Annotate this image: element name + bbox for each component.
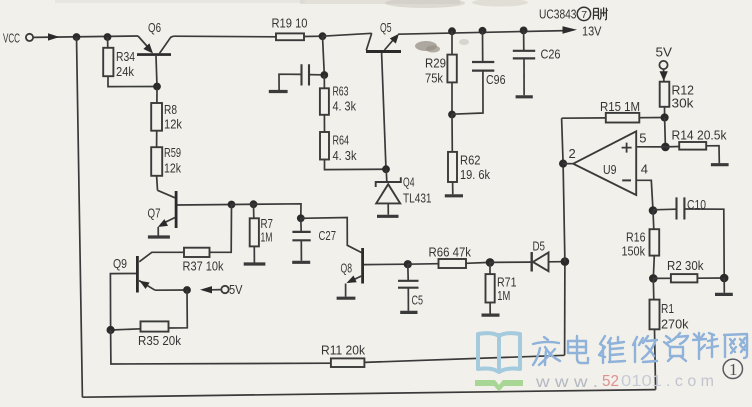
wire inverting input riser — [562, 118, 565, 261]
label R66 47k — [429, 244, 472, 259]
wire R2 node down — [723, 278, 725, 293]
node VCC junction left — [73, 33, 81, 41]
label R16 150k — [622, 229, 646, 258]
arrow 5V down — [660, 71, 668, 81]
svg-text:R8: R8 — [164, 102, 177, 117]
ground R62 — [445, 194, 463, 197]
node VCC junction R34 — [104, 33, 112, 41]
label UC3843 pin7 — [539, 7, 591, 22]
transistor Q6 — [137, 36, 174, 87]
svg-text:R1: R1 — [661, 301, 674, 316]
svg-text:w w w .: w w w . — [535, 374, 598, 391]
svg-text:C26: C26 — [541, 46, 561, 61]
label Q5 — [380, 20, 392, 35]
VCC terminal — [26, 34, 33, 41]
resistor R16 — [650, 211, 660, 279]
label R35 20k — [138, 333, 181, 348]
label D5 — [533, 239, 546, 254]
label 5V mid — [229, 282, 243, 297]
node R35 left — [107, 326, 115, 334]
resistor R63 — [320, 75, 329, 132]
wire R37 right riser — [210, 205, 232, 253]
resistor R37 — [139, 248, 209, 262]
label Q7 — [148, 205, 161, 220]
resistor R12 — [660, 79, 670, 118]
node D5 feedback — [561, 257, 570, 266]
node R37 top — [228, 201, 236, 209]
svg-text:Q5: Q5 — [380, 20, 392, 35]
diode D5 — [490, 252, 561, 272]
resistor R11 — [331, 355, 565, 367]
wire pin 4 — [636, 180, 653, 210]
svg-text:12k: 12k — [164, 160, 181, 175]
label VCC — [3, 31, 20, 46]
resistor R14 — [665, 142, 719, 163]
svg-text:19. 6k: 19. 6k — [460, 167, 490, 182]
svg-text:R19 10: R19 10 — [272, 16, 308, 31]
label C26 — [541, 46, 561, 61]
label jiao glyph — [593, 7, 607, 19]
diode Q4 TL431 — [376, 169, 401, 215]
node Q5 collector TL431 — [382, 165, 390, 173]
svg-text:. c o m: . c o m — [666, 373, 714, 390]
label R19 10 — [272, 16, 308, 31]
label R34 24k — [116, 49, 135, 79]
svg-text:4. 3k: 4. 3k — [333, 148, 357, 163]
svg-text:4: 4 — [641, 161, 648, 176]
ground Q8 — [337, 297, 356, 300]
svg-text:C27: C27 — [319, 228, 337, 243]
node R71 top — [486, 258, 495, 267]
svg-text:12k: 12k — [164, 116, 182, 131]
label R29 75k — [425, 55, 446, 85]
label R37 10k — [183, 259, 224, 274]
ground R7 — [244, 262, 266, 265]
label R7 1M — [261, 216, 274, 245]
label R1 270k — [661, 301, 689, 332]
svg-text:R15 1M: R15 1M — [600, 99, 640, 114]
svg-text:52: 52 — [602, 373, 619, 390]
capacitor at R19 node — [279, 64, 321, 90]
resistor R34 — [103, 37, 157, 87]
capacitor C27 — [292, 218, 310, 260]
transistor Q5 — [323, 33, 402, 169]
label R71 1M — [497, 274, 517, 303]
svg-text:75k: 75k — [425, 70, 443, 85]
node R2 right C10 — [720, 274, 729, 283]
wire Q9 emitter to 5V node — [155, 289, 187, 291]
resistor R2 — [653, 274, 724, 282]
label C5 — [412, 292, 424, 307]
label R59 12k — [164, 145, 181, 176]
svg-text:7: 7 — [581, 9, 587, 21]
svg-text:24k: 24k — [116, 64, 134, 79]
label R12 30k — [672, 82, 695, 110]
ground Q7 — [148, 235, 170, 238]
node pin 4 C10 R16 — [649, 206, 658, 215]
wire 13V rail — [398, 31, 566, 35]
svg-text:VCC: VCC — [3, 31, 20, 46]
arrow 13V — [563, 26, 578, 34]
wire top rail Q6 to R19 — [174, 35, 277, 38]
label 5V right — [656, 45, 673, 60]
arrow 5V left — [200, 286, 212, 293]
node rail R29 — [448, 27, 456, 35]
node R16 R2 R1 — [649, 274, 658, 283]
svg-text:5V: 5V — [656, 45, 673, 60]
resistor R8 — [151, 89, 162, 147]
svg-text:0101: 0101 — [621, 373, 662, 390]
label Q8 — [341, 261, 353, 276]
terminal 5V mid — [212, 286, 229, 293]
svg-text:R64: R64 — [333, 133, 350, 148]
svg-text:C10: C10 — [687, 197, 706, 212]
resistor R64 — [320, 132, 386, 170]
svg-text:C5: C5 — [412, 292, 424, 307]
label R2 30k — [667, 258, 704, 273]
wire base line to C27 corner — [232, 204, 302, 219]
svg-text:R63: R63 — [333, 83, 349, 98]
node Q6 base junction — [153, 83, 161, 91]
label C10 — [687, 197, 706, 212]
label R14 20.5k — [672, 127, 727, 142]
svg-text:2: 2 — [569, 146, 576, 161]
svg-text:UC3843: UC3843 — [539, 7, 577, 22]
node R29 bottom — [448, 111, 456, 119]
svg-text:Q9: Q9 — [113, 256, 127, 271]
svg-text:30k: 30k — [672, 96, 695, 111]
resistor R35 — [111, 290, 188, 332]
label R11 20k — [321, 342, 365, 357]
ground R71 — [482, 314, 500, 317]
transistor Q9 — [110, 256, 155, 330]
resistor R62 — [448, 115, 457, 195]
wire R19 node down — [323, 36, 325, 75]
node rail C96 — [479, 27, 487, 35]
transistor Q8 — [346, 248, 408, 297]
svg-text:R29: R29 — [425, 55, 446, 70]
label C27 — [319, 228, 337, 243]
svg-text:TL431: TL431 — [403, 190, 432, 205]
svg-text:1M: 1M — [497, 288, 510, 303]
svg-text:Q4: Q4 — [403, 174, 415, 189]
ground R2 — [715, 293, 733, 296]
resistor R15 — [562, 113, 665, 123]
wire R1 bottom riser — [655, 329, 656, 389]
label R63 4.3k — [333, 83, 357, 113]
wire C27 node to Q8 collector — [301, 218, 362, 253]
svg-text:R14 20.5k: R14 20.5k — [672, 127, 727, 142]
label R64 4.3k — [333, 133, 357, 163]
resistor R19 — [276, 33, 323, 40]
svg-text:U9: U9 — [603, 162, 617, 177]
label U9 — [603, 162, 617, 177]
node R66 left C5 — [404, 260, 412, 268]
node R7 top — [250, 200, 258, 208]
ground C27 — [292, 261, 310, 264]
svg-text:Q6: Q6 — [148, 20, 161, 35]
resistor R1 — [650, 278, 660, 329]
node R19 right junction — [319, 32, 327, 40]
svg-text:5: 5 — [639, 131, 646, 146]
ground TL431 — [377, 215, 399, 218]
svg-text:R66 47k: R66 47k — [429, 244, 472, 259]
node C27 top — [297, 214, 305, 222]
svg-text:R35 20k: R35 20k — [138, 333, 181, 348]
node rail C26 — [520, 27, 528, 35]
svg-text:R62: R62 — [460, 153, 481, 168]
label Q6 — [148, 20, 161, 35]
node cap junction — [320, 71, 328, 79]
svg-text:D5: D5 — [533, 239, 546, 254]
svg-text:R59: R59 — [164, 145, 181, 160]
node op-amp pin 2 — [559, 160, 567, 168]
label pin 5 — [639, 131, 646, 146]
label Q9 — [113, 256, 127, 271]
transistor Q7 — [158, 190, 178, 235]
svg-text:R37 10k: R37 10k — [183, 259, 224, 274]
wire R12 node to pin5 node — [664, 118, 667, 147]
svg-text:270k: 270k — [661, 316, 689, 331]
capacitor C26 — [513, 30, 535, 95]
ground C5 — [400, 311, 417, 314]
label R8 12k — [164, 102, 182, 132]
ground C26 — [516, 95, 533, 98]
label C96 — [486, 72, 506, 87]
svg-text:5V: 5V — [229, 282, 243, 297]
svg-text:Q7: Q7 — [148, 205, 161, 220]
node pin 5 junction — [661, 143, 670, 152]
node 5V emitter — [183, 286, 191, 294]
svg-text:R2 30k: R2 30k — [667, 258, 704, 273]
ground R14 — [711, 163, 729, 166]
ground for capacitor — [269, 90, 288, 93]
svg-text:150k: 150k — [622, 243, 646, 258]
svg-text:4. 3k: 4. 3k — [333, 99, 357, 114]
svg-text:Q8: Q8 — [341, 261, 353, 276]
label Q4 TL431 — [403, 174, 432, 205]
resistor R66 — [408, 259, 490, 268]
arrow on VCC wire — [48, 33, 60, 40]
op-amp U9 — [563, 131, 636, 195]
capacitor C5 — [398, 264, 419, 311]
svg-text:R34: R34 — [116, 49, 135, 64]
capacitor C10 — [653, 197, 724, 278]
svg-text:13V: 13V — [582, 23, 602, 38]
wire VCC to Q6 emitter — [33, 36, 138, 37]
wire left frame down — [77, 37, 83, 397]
wire Q7 base line — [178, 204, 232, 207]
label pin 2 — [569, 146, 576, 161]
resistor R29 — [447, 31, 456, 114]
svg-text:1: 1 — [729, 360, 738, 379]
node R12 R15 junction — [661, 113, 669, 121]
terminal 5V top right — [659, 61, 667, 72]
resistor R59 — [151, 147, 162, 190]
svg-text:R11 20k: R11 20k — [321, 342, 365, 357]
label R62 19.6k — [460, 153, 490, 182]
svg-text:C96: C96 — [486, 72, 506, 87]
wire bottom frame — [82, 390, 655, 398]
wire pin 5 — [636, 146, 665, 148]
label R15 1M — [600, 99, 640, 114]
svg-text:1M: 1M — [261, 230, 273, 245]
resistor R71 — [486, 262, 495, 313]
wire feedback riser to D5 node — [564, 262, 566, 356]
label pin 4 — [641, 161, 648, 176]
resistor R7 — [250, 204, 259, 262]
capacitor C96 — [452, 31, 494, 114]
label 13V — [582, 23, 602, 38]
wire R35 node down to R11 line — [111, 330, 331, 364]
svg-text:R16: R16 — [626, 229, 646, 244]
